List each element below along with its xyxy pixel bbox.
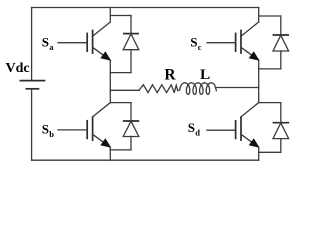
wire S_d diode top branch (259, 102, 281, 104)
inductor L (174, 83, 258, 95)
wire left leg mid vertical (109, 60, 111, 102)
transistor S_c (IGBT) (207, 22, 260, 61)
wire S_d diode bottom branch (259, 151, 281, 153)
wire S_c diode bottom branch (259, 68, 281, 70)
diode (freewheel of S_d) (273, 103, 290, 153)
wire left rail lower (31, 89, 33, 160)
label S_c (190, 35, 201, 53)
label Vdc (6, 61, 30, 76)
label L (200, 66, 210, 83)
svg-text:S: S (42, 35, 49, 50)
svg-text:S: S (42, 121, 49, 136)
svg-text:L: L (200, 66, 210, 83)
label S_b (42, 121, 54, 139)
diode (freewheel of S_c) (273, 16, 289, 69)
label S_a (42, 35, 54, 53)
transistor S_a (IGBT) (58, 22, 111, 61)
diode (freewheel of S_b) (123, 103, 139, 150)
node A wire to load (110, 89, 139, 91)
wire S_c diode top branch (259, 15, 281, 17)
svg-text:c: c (198, 42, 202, 52)
battery Vdc negative plate (26, 88, 40, 90)
battery Vdc positive plate (20, 80, 46, 82)
wire S_c collector stub (258, 8, 260, 23)
svg-text:Vdc: Vdc (6, 61, 30, 76)
wire top rail (32, 7, 259, 9)
wire S_b emitter to bottom rail (109, 147, 111, 160)
svg-text:S: S (190, 35, 197, 50)
transistor S_d (IGBT) (207, 103, 260, 148)
svg-text:d: d (195, 128, 200, 138)
svg-text:R: R (164, 66, 176, 83)
wire S_b diode top branch (110, 102, 131, 104)
diode (freewheel of S_a) (123, 16, 139, 73)
svg-text:S: S (188, 120, 195, 135)
wire S_a collector stub (109, 8, 111, 23)
wire S_a diode top branch (110, 15, 131, 17)
wire S_d emitter to bottom rail (258, 147, 260, 160)
wire bottom rail (32, 159, 259, 161)
svg-text:b: b (49, 129, 54, 139)
wire S_b diode bottom branch (110, 149, 131, 151)
wire right leg mid vertical (258, 60, 260, 102)
wire S_a diode bottom branch (110, 72, 131, 74)
label R (164, 66, 176, 83)
resistor R (139, 85, 174, 93)
transistor S_b (IGBT) (58, 103, 111, 148)
svg-text:a: a (49, 42, 54, 52)
wire left rail upper (31, 8, 33, 81)
label S_d (188, 120, 200, 138)
